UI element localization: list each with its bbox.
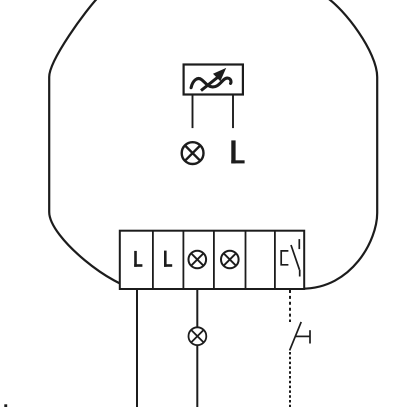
- terminal divider 5: [274, 231, 276, 289]
- wire from lamp to bottom: [196, 345, 198, 407]
- wire right lead from module: [232, 96, 234, 129]
- dimmer symbol arrow shaft: [201, 75, 221, 91]
- wire push-button upper (dashed): [289, 290, 291, 322]
- terminal divider 4: [245, 231, 247, 289]
- device outline: [49, 0, 377, 289]
- terminal 4 lamp symbol: [221, 251, 239, 269]
- terminal divider 3: [213, 231, 215, 289]
- lamp E1: [189, 327, 207, 345]
- corner mark: [4, 404, 7, 407]
- terminal divider 2: [182, 231, 184, 289]
- dimmer symbol arrowhead: [213, 68, 226, 81]
- wire from terminal 3 to lamp: [196, 289, 198, 328]
- wire push-button lower (dashed): [289, 352, 291, 407]
- terminal 6 push-button symbol: [281, 239, 300, 276]
- wire left lead from module: [192, 96, 194, 129]
- node L label: [231, 140, 244, 163]
- terminal 3 lamp symbol: [189, 251, 207, 269]
- dimmer module U1: [184, 65, 243, 95]
- terminal block: [120, 231, 304, 289]
- dimmer symbol wave: [191, 78, 231, 88]
- wire from terminal 1 (L feed): [136, 289, 138, 407]
- terminal divider 1: [152, 231, 154, 289]
- terminal 2 label L: [164, 251, 172, 267]
- push-button S1: [290, 322, 310, 351]
- lamp symbol (load indicator): [182, 142, 204, 164]
- terminal 1 label L: [134, 251, 142, 267]
